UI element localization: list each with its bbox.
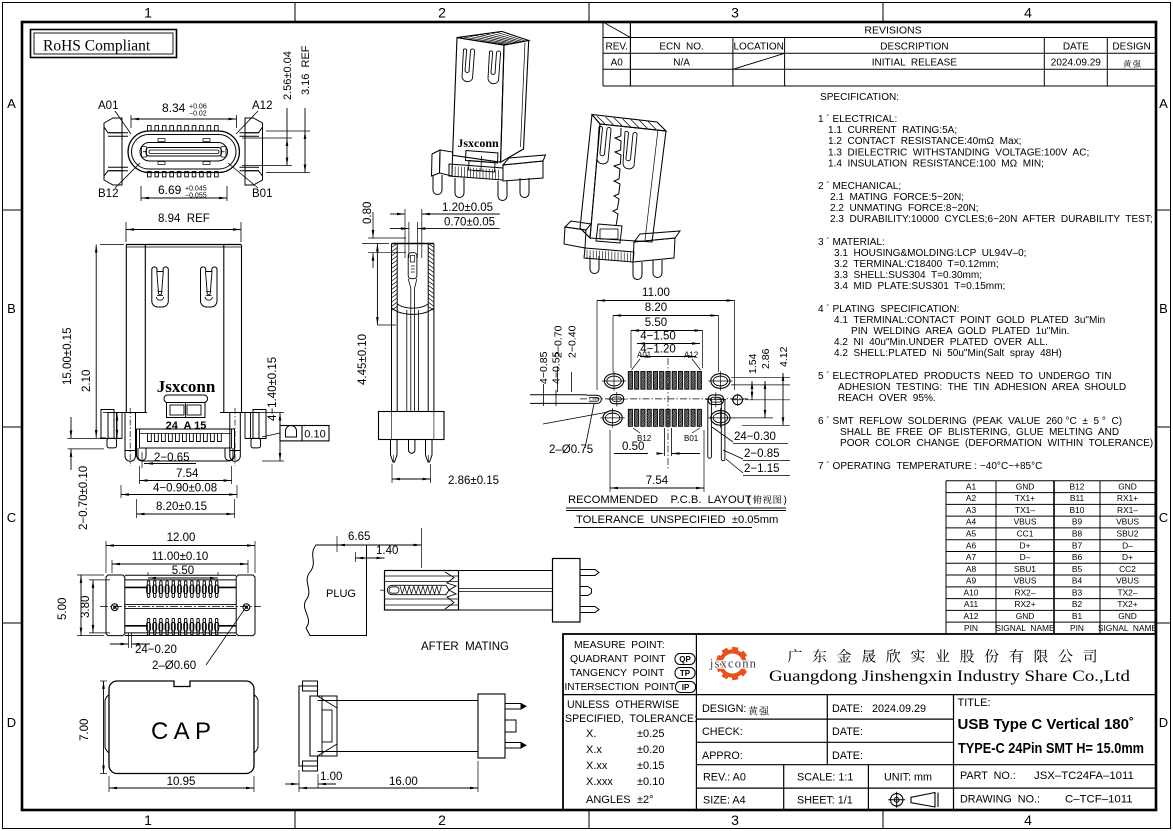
svg-text:REACH OVER 95%.: REACH OVER 95%. — [838, 393, 936, 404]
svg-text:4.2 SHELL:PLATED Ni 50u"Min: 4.2 SHELL:PLATED Ni 50u"Min(Salt spray 4… — [834, 348, 1062, 359]
svg-text:RECOMMENDED P.C.B. LAYOUT: RECOMMENDED P.C.B. LAYOUT — [568, 494, 752, 506]
svg-text:N/A: N/A — [673, 57, 690, 68]
svg-text:3.1 HOUSING&MOLDING:LCP UL94: 3.1 HOUSING&MOLDING:LCP UL94V–0; — [834, 248, 1026, 259]
svg-text:4 ´ PLATING SPECIFICATION:: 4 ´ PLATING SPECIFICATION: — [818, 303, 959, 315]
svg-text:TITLE:: TITLE: — [958, 697, 991, 709]
svg-text:2−0.40: 2−0.40 — [567, 325, 579, 358]
svg-text:7 ´ OPERATING TEMPERATURE : −: 7 ´ OPERATING TEMPERATURE : −40°C~+85°C — [818, 460, 1042, 472]
svg-text:3: 3 — [731, 812, 739, 828]
svg-text:SBU1: SBU1 — [1014, 564, 1036, 574]
svg-text:1.40: 1.40 — [376, 545, 398, 557]
svg-text:D: D — [1159, 715, 1168, 730]
svg-text:B12: B12 — [98, 188, 118, 200]
svg-text:1.2 CONTACT RESISTANCE:40mΩ: 1.2 CONTACT RESISTANCE:40mΩ Max; — [828, 136, 1021, 147]
svg-text:1.54: 1.54 — [747, 353, 759, 374]
svg-text:2.1 MATING FORCE:5~20N;: 2.1 MATING FORCE:5~20N; — [830, 192, 964, 203]
svg-text:1.4 INSULATION RESISTANCE:10: 1.4 INSULATION RESISTANCE:100 MΩ MIN; — [828, 159, 1044, 170]
svg-text:SBU2: SBU2 — [1117, 529, 1139, 539]
svg-text:11.00: 11.00 — [642, 287, 670, 299]
svg-text:2 ´ MECHANICAL;: 2 ´ MECHANICAL; — [818, 180, 901, 192]
svg-text:7.54: 7.54 — [646, 475, 669, 487]
svg-text:GND: GND — [1016, 481, 1035, 491]
svg-text:0.80: 0.80 — [362, 202, 374, 224]
svg-text:DESIGN: DESIGN — [1112, 41, 1150, 52]
svg-text:ANGLES: ANGLES — [586, 794, 631, 806]
svg-text:10.95: 10.95 — [167, 776, 196, 788]
svg-text:2: 2 — [438, 812, 446, 828]
svg-text:PIN: PIN — [964, 623, 978, 633]
svg-text:B9: B9 — [1072, 517, 1083, 527]
svg-text:B6: B6 — [1072, 552, 1083, 562]
svg-text:B3: B3 — [1072, 587, 1083, 597]
svg-text:1.00: 1.00 — [320, 771, 342, 783]
svg-text:2−0.70±0.10: 2−0.70±0.10 — [78, 466, 90, 530]
svg-text:CC1: CC1 — [1017, 529, 1034, 539]
svg-text:TX2–: TX2– — [1117, 587, 1137, 597]
svg-text:1: 1 — [144, 812, 152, 828]
svg-text:C: C — [7, 510, 16, 525]
svg-text:QUADRANT POINT: QUADRANT POINT — [570, 654, 666, 665]
svg-text:+0.06: +0.06 — [189, 104, 207, 111]
svg-text:A: A — [7, 96, 16, 111]
svg-text:±0.15: ±0.15 — [637, 760, 664, 772]
svg-text:3.4 MID PLATE:SUS301 T=0.15: 3.4 MID PLATE:SUS301 T=0.15mm; — [834, 281, 1005, 292]
svg-text:D: D — [7, 715, 16, 730]
svg-text:4.12: 4.12 — [778, 346, 790, 367]
svg-text:RX1–: RX1– — [1117, 505, 1138, 515]
svg-text:2–Ø0.75: 2–Ø0.75 — [549, 444, 593, 456]
svg-text:A01: A01 — [98, 100, 118, 112]
svg-text:7.00: 7.00 — [79, 719, 91, 741]
svg-text:RX2+: RX2+ — [1014, 599, 1035, 609]
svg-text:INTERSECTION POINT: INTERSECTION POINT — [565, 682, 676, 693]
svg-text:5.00: 5.00 — [57, 598, 69, 620]
svg-text:8.20±0.15: 8.20±0.15 — [156, 501, 207, 513]
svg-text:±0.10: ±0.10 — [637, 776, 664, 788]
svg-text:VBUS: VBUS — [1116, 517, 1139, 527]
svg-text:D+: D+ — [1122, 552, 1133, 562]
svg-text:B10: B10 — [1070, 505, 1085, 515]
svg-text:PIN WELDING AREA GOLD PLAT: PIN WELDING AREA GOLD PLATED 1u"Min. — [851, 326, 1069, 337]
svg-text:): ) — [784, 495, 787, 506]
svg-text:5 ´ ELECTROPLATED PRODUCTS N: 5 ´ ELECTROPLATED PRODUCTS NEED TO UNDER… — [818, 370, 1111, 382]
svg-text:REVISIONS: REVISIONS — [864, 25, 921, 37]
svg-text:A12: A12 — [252, 100, 272, 112]
svg-text:X.xx: X.xx — [586, 760, 608, 772]
svg-text:ADHESION TESTING: THE TIN: ADHESION TESTING: THE TIN ADHESION AREA … — [838, 382, 1126, 393]
svg-text:GND: GND — [1118, 611, 1137, 621]
svg-text:TX1+: TX1+ — [1015, 493, 1035, 503]
svg-text:CC2: CC2 — [1119, 564, 1136, 574]
svg-text:3: 3 — [731, 5, 739, 21]
svg-text:B11: B11 — [1070, 493, 1085, 503]
svg-text:2024.09.29: 2024.09.29 — [872, 703, 926, 715]
svg-text:Guangdong Jinshengxin Industry: Guangdong Jinshengxin Industry Share Co.… — [769, 667, 1130, 685]
svg-text:IP: IP — [682, 683, 690, 692]
svg-text:A0: A0 — [611, 57, 624, 68]
svg-text:2−0.85: 2−0.85 — [744, 448, 780, 460]
svg-text:Jsxconn: Jsxconn — [157, 377, 216, 396]
svg-text:11.00±0.10: 11.00±0.10 — [152, 551, 209, 563]
svg-text:1.3 DIELECTRIC WITHSTANDING: 1.3 DIELECTRIC WITHSTANDING VOLTAGE:100V… — [828, 148, 1089, 159]
svg-text:SIGNAL NAME: SIGNAL NAME — [1098, 623, 1158, 633]
svg-text:TOLERANCE UNSPECIFIED ±0.05m: TOLERANCE UNSPECIFIED ±0.05mm — [576, 514, 778, 526]
svg-text:B4: B4 — [1072, 576, 1083, 586]
svg-text:A: A — [1159, 96, 1168, 111]
svg-text:2.86: 2.86 — [760, 348, 772, 369]
svg-text:MEASURE POINT:: MEASURE POINT: — [574, 640, 665, 651]
svg-text:±0.25: ±0.25 — [637, 728, 664, 740]
svg-text:4: 4 — [1024, 5, 1032, 21]
svg-text:B5: B5 — [1072, 564, 1083, 574]
svg-text:APPRO:: APPRO: — [702, 750, 743, 762]
svg-text:JSX–TC24FA–1011: JSX–TC24FA–1011 — [1034, 770, 1134, 782]
svg-text:A3: A3 — [966, 505, 977, 515]
svg-text:2.56±0.04: 2.56±0.04 — [282, 51, 294, 100]
svg-text:A12: A12 — [684, 351, 699, 360]
svg-text:B: B — [7, 301, 16, 316]
svg-text:jsxconn: jsxconn — [709, 657, 757, 671]
svg-text:SPECIFIED, TOLERANCE:: SPECIFIED, TOLERANCE: — [565, 713, 697, 725]
svg-text:B7: B7 — [1072, 540, 1083, 550]
svg-text:3.16 REF: 3.16 REF — [300, 45, 312, 95]
svg-text:X.x: X.x — [586, 744, 602, 756]
svg-text:2.86±0.15: 2.86±0.15 — [448, 475, 499, 487]
svg-text:D+: D+ — [1020, 540, 1031, 550]
svg-text:A9: A9 — [966, 576, 977, 586]
svg-text:INITIAL RELEASE: INITIAL RELEASE — [872, 57, 958, 68]
svg-text:2: 2 — [438, 5, 446, 21]
svg-text:TX1–: TX1– — [1015, 505, 1035, 515]
svg-text:3.3 SHELL:SUS304 T=0.30mm;: 3.3 SHELL:SUS304 T=0.30mm; — [834, 270, 982, 281]
svg-text:DATE:: DATE: — [832, 750, 863, 762]
svg-text:3 ´ MATERIAL:: 3 ´ MATERIAL: — [818, 236, 885, 248]
svg-text:2.3 DURABILITY:10000 CYCLES;: 2.3 DURABILITY:10000 CYCLES;6~20N AFTER … — [830, 214, 1153, 225]
svg-text:5.50: 5.50 — [172, 565, 194, 577]
svg-text:C A P: C A P — [151, 718, 211, 745]
svg-text:8.94 REF: 8.94 REF — [158, 213, 210, 225]
svg-text:1.1 CURRENT RATING:5A;: 1.1 CURRENT RATING:5A; — [828, 125, 957, 136]
svg-text:DATE: DATE — [1063, 41, 1089, 52]
svg-text:D–: D– — [1122, 540, 1133, 550]
svg-text:RoHS Compliant: RoHS Compliant — [43, 38, 151, 55]
svg-text:X.: X. — [586, 728, 596, 740]
svg-text:SIGNAL NAME: SIGNAL NAME — [995, 623, 1055, 633]
svg-text:24−0.20: 24−0.20 — [135, 644, 177, 656]
svg-text:−0.055: −0.055 — [185, 193, 207, 200]
svg-text:6.65: 6.65 — [348, 531, 370, 543]
svg-text:+0.045: +0.045 — [185, 186, 207, 193]
svg-text:POOR COLOR CHANGE (DEFORMAT: POOR COLOR CHANGE (DEFORMATION WITHIN TO… — [840, 438, 1153, 449]
svg-text:A5: A5 — [966, 529, 977, 539]
svg-text:2.10: 2.10 — [81, 370, 93, 392]
svg-text:DRAWING NO.:: DRAWING NO.: — [960, 794, 1040, 806]
svg-text:4−1.50: 4−1.50 — [640, 331, 676, 343]
svg-text:1 ´ ELECTRICAL:: 1 ´ ELECTRICAL: — [818, 113, 897, 125]
svg-text:▪ ▪: ▪ ▪ — [473, 169, 479, 175]
svg-text:4−0.85: 4−0.85 — [538, 351, 550, 384]
svg-text:24 A 15: 24 A 15 — [166, 420, 207, 432]
svg-text:RX1+: RX1+ — [1117, 493, 1138, 503]
svg-text:2−0.65: 2−0.65 — [154, 452, 190, 464]
svg-text:±0.20: ±0.20 — [637, 744, 664, 756]
svg-text:D–: D– — [1020, 552, 1031, 562]
svg-text:16.00: 16.00 — [389, 776, 418, 788]
svg-text:6.69: 6.69 — [158, 183, 182, 197]
svg-text:DATE:: DATE: — [832, 703, 863, 715]
svg-text:±2°: ±2° — [637, 794, 654, 806]
svg-text:B01: B01 — [684, 434, 699, 443]
svg-text:3.80: 3.80 — [80, 596, 92, 618]
svg-text:4: 4 — [1024, 812, 1032, 828]
svg-text:PART NO.:: PART NO.: — [960, 770, 1016, 782]
svg-text:−0.02: −0.02 — [189, 111, 207, 118]
svg-text:AFTER MATING: AFTER MATING — [421, 641, 509, 653]
svg-text:2−1.15: 2−1.15 — [744, 463, 780, 475]
svg-text:UNIT: mm: UNIT: mm — [884, 772, 932, 784]
svg-text:15.00±0.15: 15.00±0.15 — [62, 328, 74, 385]
svg-text:DESIGN:: DESIGN: — [702, 703, 746, 715]
svg-text:B1: B1 — [1072, 611, 1083, 621]
svg-text:PIN: PIN — [1070, 623, 1084, 633]
svg-text:Jsxconn: Jsxconn — [457, 136, 499, 150]
svg-text:4.45±0.10: 4.45±0.10 — [357, 334, 369, 385]
svg-text:TP: TP — [680, 669, 691, 678]
svg-text:SPECIFICATION:: SPECIFICATION: — [820, 92, 899, 103]
svg-text:SHALL BE FREE OF BLISTERIN: SHALL BE FREE OF BLISTERING, GLUE MELTIN… — [840, 427, 1119, 438]
svg-text:A2: A2 — [966, 493, 977, 503]
svg-text:TANGENCY POINT: TANGENCY POINT — [570, 668, 665, 679]
svg-text:QP: QP — [679, 655, 691, 664]
svg-text:2.2 UNMATING FORCE:8~20N;: 2.2 UNMATING FORCE:8~20N; — [830, 203, 979, 214]
svg-text:LOCATION: LOCATION — [734, 41, 784, 52]
svg-text:DESCRIPTION: DESCRIPTION — [880, 41, 948, 52]
svg-text:SCALE: 1:1: SCALE: 1:1 — [797, 772, 853, 784]
svg-text:RX2–: RX2– — [1015, 587, 1036, 597]
svg-text:GND: GND — [1016, 611, 1035, 621]
svg-text:GND: GND — [1118, 481, 1137, 491]
svg-text:B: B — [1159, 301, 1168, 316]
svg-text:SHEET: 1/1: SHEET: 1/1 — [797, 795, 853, 807]
svg-text:A4: A4 — [966, 517, 977, 527]
svg-text:B01: B01 — [252, 188, 272, 200]
svg-text:A7: A7 — [966, 552, 977, 562]
svg-text:SIZE: A4: SIZE: A4 — [703, 795, 746, 807]
svg-text:7.54: 7.54 — [176, 468, 199, 480]
svg-text:B12: B12 — [1070, 481, 1085, 491]
svg-text:VBUS: VBUS — [1014, 517, 1037, 527]
svg-text:2–Ø0.60: 2–Ø0.60 — [152, 660, 196, 672]
svg-text:TX2+: TX2+ — [1117, 599, 1137, 609]
svg-text:4−0.90±0.08: 4−0.90±0.08 — [153, 483, 217, 495]
svg-text:0.70±0.05: 0.70±0.05 — [444, 217, 495, 229]
svg-text:3.2 TERMINAL:C18400 T=0.12mm: 3.2 TERMINAL:C18400 T=0.12mm; — [834, 259, 999, 270]
svg-text:A1: A1 — [966, 481, 977, 491]
svg-text:TYPE-C 24Pin SMT H= 15.0mm: TYPE-C 24Pin SMT H= 15.0mm — [958, 741, 1144, 757]
svg-text:ECN NO.: ECN NO. — [659, 41, 703, 52]
svg-text:4−1.40±0.15: 4−1.40±0.15 — [267, 357, 279, 421]
svg-text:A12: A12 — [964, 611, 979, 621]
svg-text:PLUG: PLUG — [326, 588, 356, 600]
svg-text:USB Type C Vertical 180˚: USB Type C Vertical 180˚ — [958, 716, 1134, 733]
svg-text:12.00: 12.00 — [167, 532, 196, 544]
svg-text:A8: A8 — [966, 564, 977, 574]
svg-text:VBUS: VBUS — [1116, 576, 1139, 586]
svg-text:B8: B8 — [1072, 529, 1083, 539]
svg-text:A01: A01 — [637, 351, 652, 360]
svg-text:B2: B2 — [1072, 599, 1083, 609]
svg-text:X.xxx: X.xxx — [586, 776, 613, 788]
svg-text:4.1 TERMINAL:CONTACT POINT: 4.1 TERMINAL:CONTACT POINT GOLD PLATED 3… — [834, 315, 1105, 326]
svg-text:0.10: 0.10 — [304, 429, 325, 441]
svg-text:1: 1 — [144, 5, 152, 21]
svg-text:REV.: REV. — [605, 41, 627, 52]
svg-text:1.20±0.05: 1.20±0.05 — [442, 202, 493, 214]
svg-text:CHECK:: CHECK: — [702, 726, 743, 738]
svg-text:C–TCF–1011: C–TCF–1011 — [1065, 794, 1133, 806]
svg-text:VBUS: VBUS — [1014, 576, 1037, 586]
svg-text:REV.: A0: REV.: A0 — [703, 772, 746, 784]
svg-text:4−0.55: 4−0.55 — [551, 351, 563, 384]
svg-text:24−0.30: 24−0.30 — [734, 431, 776, 443]
svg-text:A6: A6 — [966, 540, 977, 550]
svg-text:8.20: 8.20 — [645, 302, 667, 314]
svg-text:C: C — [1159, 510, 1168, 525]
svg-text:2024.09.29: 2024.09.29 — [1051, 57, 1101, 68]
svg-text:6 ´ SMT REFLOW SOLDERING (P: 6 ´ SMT REFLOW SOLDERING (PEAK VALUE 260… — [818, 415, 1122, 427]
svg-text:A11: A11 — [964, 599, 979, 609]
svg-text:0.50: 0.50 — [622, 441, 644, 453]
svg-text:A10: A10 — [964, 587, 979, 597]
svg-text:DATE:: DATE: — [832, 726, 863, 738]
svg-text:5.50: 5.50 — [645, 317, 667, 329]
svg-text:8.34: 8.34 — [162, 101, 186, 115]
svg-text:UNLESS OTHERWISE: UNLESS OTHERWISE — [567, 699, 679, 711]
svg-text:4.2 NI 40u"Min.UNDER PLATED: 4.2 NI 40u"Min.UNDER PLATED OVER ALL. — [834, 337, 1048, 348]
